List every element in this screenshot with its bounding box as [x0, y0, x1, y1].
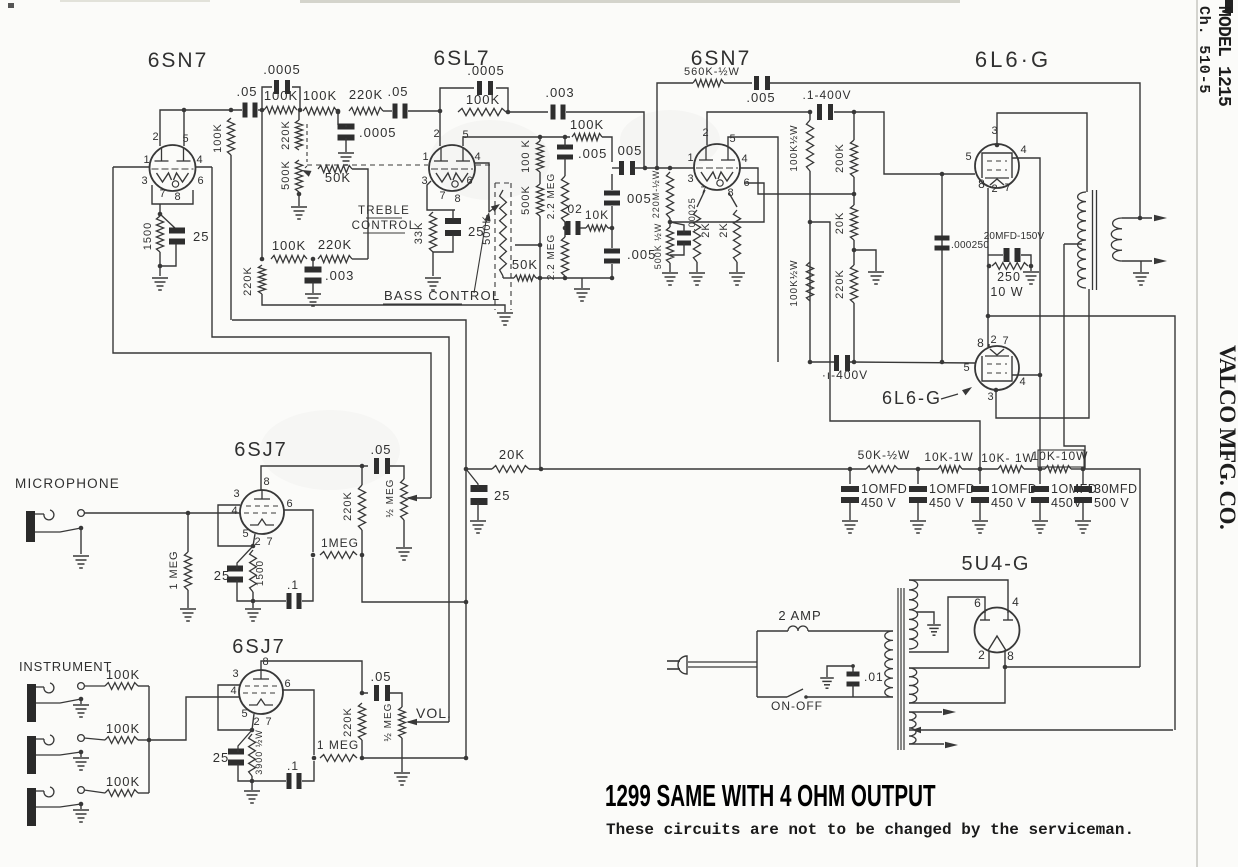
capacitor 25 instr: [228, 749, 244, 766]
ground 6SL7 cathode: [425, 278, 441, 290]
pin labels V5: [963, 334, 1026, 403]
node x854 top: [852, 110, 857, 115]
svg-text:25: 25: [213, 750, 229, 765]
svg-text:220K: 220K: [242, 266, 254, 296]
ground .01: [820, 678, 834, 688]
label MODEL 1215: [1213, 6, 1233, 106]
wire mic gnd stub: [80, 528, 82, 554]
svg-text:220K: 220K: [834, 269, 846, 299]
ground tone rail: [574, 289, 590, 301]
ground instr cathode: [244, 791, 260, 803]
label 220K mic: [342, 491, 354, 521]
node mic 1meg right: [360, 553, 365, 558]
svg-text:4: 4: [1020, 144, 1027, 156]
label 100K input 1: [106, 667, 140, 682]
node rail-100K plate: [229, 108, 234, 113]
tube V8 5U4: [975, 608, 1020, 653]
svg-text:4: 4: [1012, 595, 1020, 609]
wire 250 gnd: [1029, 264, 1034, 271]
svg-text:250: 250: [997, 270, 1021, 284]
wire V7 plate up: [261, 661, 368, 693]
wire driver grid: [656, 167, 695, 169]
annotation arrow lower 6L6: [941, 387, 972, 399]
capacitor .005 shunt a: [557, 145, 573, 160]
wire V6 plate up: [261, 466, 368, 490]
resistor 10K tone: [586, 225, 608, 231]
label 50K bottom: [512, 257, 538, 272]
wire instr jack 1 sleeve: [36, 699, 81, 703]
wire speaker bottom: [1122, 260, 1152, 262]
wire filter 4 gnd: [1039, 503, 1041, 520]
wire instr jack 2 sleeve: [36, 752, 81, 755]
capacitor .005 interstage: [619, 161, 635, 175]
ground mic cathode: [245, 609, 261, 621]
node screens join: [1038, 373, 1043, 378]
label 2.2MEG b: [546, 234, 557, 280]
wire filter cap 3 stub: [979, 469, 981, 484]
label .000250: [951, 240, 989, 251]
wire .1 instr leads: [252, 761, 314, 781]
svg-text:100K: 100K: [106, 774, 140, 789]
resistor 100K bass: [271, 255, 307, 262]
label Ch. 510-5: [1195, 6, 1212, 94]
svg-text:3900 ½W: 3900 ½W: [254, 729, 264, 775]
wire 5V bottom: [909, 650, 1005, 703]
capacitor .00025: [677, 231, 691, 246]
resistor 2.2MEG b: [561, 237, 568, 276]
label .0005 bridge 2: [467, 63, 505, 78]
svg-text:.05: .05: [370, 669, 391, 684]
annotation line to bass pot: [474, 212, 491, 293]
label 1MEG instr load: [317, 738, 359, 752]
svg-text:25: 25: [468, 224, 484, 239]
svg-text:.003: .003: [325, 268, 354, 283]
svg-text:1299 SAME WITH 4 OHM OUTPUT: 1299 SAME WITH 4 OHM OUTPUT: [605, 778, 936, 813]
svg-text:ON-OFF: ON-OFF: [771, 699, 823, 713]
svg-text:5: 5: [965, 151, 972, 163]
resistor 20K splitter: [850, 205, 857, 240]
wire 25 mic link: [237, 546, 253, 569]
wire .02 leads: [565, 227, 586, 229]
wire driver cath 2: [729, 193, 737, 207]
wire cathode cap top: [160, 214, 176, 229]
capacitor .003 bass: [305, 267, 322, 284]
svg-text:MODEL 1215: MODEL 1215: [1213, 6, 1233, 106]
label 100K bass: [272, 238, 306, 253]
wire tone bottom rail: [503, 277, 612, 279]
label 220K splitter: [834, 269, 846, 299]
text 1299 SAME WITH 4 OHM OUTPUT: [605, 778, 936, 813]
wire chain to Bplus row: [539, 278, 541, 469]
svg-text:.01: .01: [864, 670, 884, 684]
label 50K treble: [325, 170, 351, 185]
wire .05 instr to pot: [390, 693, 402, 707]
wire mic pot gnd: [403, 520, 405, 547]
wire cap stub: [345, 125, 347, 127]
label 250: [997, 270, 1021, 284]
capacitor .0005 bridge 1: [274, 80, 290, 94]
wire feedback long: [770, 83, 1140, 218]
wire .003 to corner: [566, 112, 644, 168]
label 25 mic: [214, 568, 230, 583]
label 33K: [413, 222, 425, 245]
wire .01 top: [827, 666, 853, 677]
node mix 2: [464, 756, 469, 761]
label 10K tone: [585, 208, 609, 222]
wire pot to ground: [298, 192, 300, 206]
svg-text:.0005: .0005: [263, 62, 301, 77]
wire cord split: [756, 631, 758, 697]
svg-text:10K- 1W: 10K- 1W: [981, 451, 1035, 465]
svg-text:1OMFD: 1OMFD: [929, 482, 975, 496]
node rail-pin5: [182, 108, 187, 113]
label .00025: [687, 197, 697, 231]
power transformer core: [898, 588, 904, 750]
label CONTROL: [352, 220, 417, 233]
svg-text:.1: .1: [287, 759, 299, 773]
wire 25 stubs: [433, 210, 453, 252]
wire V5 screen: [1012, 374, 1040, 376]
wire driver pin5 over: [728, 137, 778, 362]
node rail 6SL7: [438, 109, 443, 114]
wire to ground V1: [159, 266, 161, 276]
wire V1 pin4 right: [195, 166, 212, 168]
corner mark top-right: [1225, 0, 1233, 13]
svg-text:500K: 500K: [280, 160, 292, 190]
svg-text:6L6·G: 6L6·G: [975, 47, 1051, 72]
svg-text:5U4-G: 5U4-G: [962, 553, 1031, 575]
ground treble pot: [291, 207, 307, 219]
output transformer core: [1093, 190, 1097, 290]
wire driver pin4 over: [740, 168, 852, 194]
ground 2K a: [689, 273, 705, 285]
label .01: [864, 670, 884, 684]
label 25 V1: [193, 229, 209, 244]
label 2.2MEG a: [546, 173, 557, 219]
capacitor .05 coupling 2: [393, 104, 408, 119]
wire V7 pin6: [283, 690, 314, 755]
scan smudge b: [620, 110, 720, 170]
pin labels V8: [974, 595, 1020, 663]
node instr 1meg right: [360, 756, 365, 761]
resistor 1MEG mic grid: [184, 552, 191, 590]
svg-text:560K-½W: 560K-½W: [684, 66, 740, 78]
wire node A2 down: [298, 111, 300, 120]
label 25 6SL7: [468, 224, 484, 239]
tube V3 6SN7: [694, 144, 740, 190]
resistor 1MEG mic load: [320, 552, 357, 559]
node instr plate: [360, 691, 365, 696]
label INSTRUMENT: [19, 659, 112, 674]
svg-text:005: 005: [627, 191, 652, 206]
node 200K bottom: [852, 192, 857, 197]
resistor 200K: [850, 112, 857, 177]
node filter 3: [978, 467, 983, 472]
speaker arrow bottom: [1154, 258, 1167, 264]
switch lever: [787, 689, 803, 697]
wire .000250 link: [941, 174, 943, 362]
node 220M join: [668, 166, 673, 171]
svg-text:VOL.: VOL.: [416, 705, 452, 721]
resistor 50K halfW: [866, 466, 898, 473]
wire A3 down: [337, 111, 339, 125]
svg-text:1MEG: 1MEG: [321, 536, 359, 550]
wire 005a stub: [564, 137, 566, 147]
svg-text:100K: 100K: [303, 88, 337, 103]
capacitor filter 5: [1074, 486, 1092, 503]
resistor 100K chain: [536, 141, 543, 172]
label 6SJ7 instr: [232, 636, 286, 658]
wire fuse line: [757, 630, 788, 632]
label 10K1W b: [981, 451, 1035, 465]
svg-text:5: 5: [241, 708, 248, 720]
wire hv ct: [916, 612, 934, 624]
wire driver cath 1: [697, 190, 705, 207]
svg-text:220K: 220K: [349, 87, 383, 102]
svg-text:3: 3: [232, 668, 239, 680]
wire speaker top: [1122, 217, 1152, 219]
svg-text:4: 4: [230, 685, 237, 697]
ac cord: [688, 662, 757, 667]
svg-text:20K: 20K: [834, 212, 846, 235]
wire V5 plate: [994, 289, 1089, 418]
svg-text:3: 3: [987, 391, 994, 403]
label 200K: [834, 143, 846, 173]
wire filter cap 4 stub: [1039, 469, 1041, 484]
wire mic out link: [362, 555, 466, 602]
svg-text:500 V: 500 V: [1094, 496, 1129, 510]
capacitor .1-400V b: [834, 355, 850, 371]
label VOL: [416, 705, 452, 721]
label .05 instr: [370, 669, 391, 684]
label 6SN7 driver: [691, 47, 752, 70]
wire V1 pin5 up: [183, 110, 185, 146]
label .05 first: [236, 84, 257, 99]
resistor 50K treble: [318, 165, 352, 172]
resistor 500K chain: [536, 184, 543, 216]
label 6SL7: [433, 47, 490, 70]
label 6SJ7 mic: [234, 439, 288, 461]
label 220K instr: [342, 707, 354, 737]
label .005 feedback: [746, 90, 775, 105]
svg-text:1OMFD: 1OMFD: [991, 482, 1037, 496]
wire instr jack 3 out: [84, 790, 105, 793]
svg-text:100K½W: 100K½W: [789, 259, 800, 306]
wire 005a down: [564, 158, 566, 176]
wire V4 screen: [1012, 158, 1040, 374]
wire .1 mic leads: [253, 558, 313, 601]
ground hv ct: [927, 625, 941, 635]
pin labels V7: [230, 656, 291, 728]
wire grid rail: [810, 362, 975, 363]
filament 6.3V winding: [909, 712, 916, 744]
wire 50K right: [352, 169, 368, 259]
label VALCO MFG. CO.: [1215, 345, 1238, 529]
resistor 33K: [429, 212, 436, 252]
node mic 1meg left: [311, 553, 316, 558]
resistor 100KhalfW a: [806, 112, 813, 171]
node bass left: [260, 257, 265, 262]
node cath bottom: [158, 264, 163, 269]
svg-text:7: 7: [159, 188, 166, 200]
svg-text:2K: 2K: [718, 222, 730, 237]
capacitor .05 coupling 1: [243, 103, 258, 118]
node feedback tap: [1138, 216, 1143, 221]
wire 100K 3 to bus: [138, 792, 149, 794]
wire 500KhW gnd: [669, 263, 671, 272]
wire instr mix bus: [148, 686, 150, 793]
wire 005 interstage leads: [612, 167, 656, 169]
svg-text:.0005: .0005: [359, 125, 397, 140]
instr jack 2 body: [27, 736, 36, 774]
instr jack 1 circle: [78, 683, 85, 690]
ground speaker: [1133, 273, 1149, 285]
wire V7 cathode: [252, 714, 254, 730]
wire instr pot gnd: [401, 738, 403, 772]
node V7 cath: [250, 728, 255, 733]
svg-text:100K: 100K: [264, 88, 298, 103]
svg-text:Ch. 510-5: Ch. 510-5: [1195, 6, 1212, 94]
label 6SN7 first stage: [148, 49, 209, 72]
label 2 AMP: [778, 608, 821, 623]
svg-text:2.2 MEG: 2.2 MEG: [546, 173, 557, 219]
svg-text:3: 3: [233, 488, 240, 500]
mic jack tip contact: [35, 510, 54, 520]
node switch: [804, 695, 808, 699]
label .1 instr: [287, 759, 299, 773]
wire 100K 2 to bus: [138, 739, 149, 741]
svg-text:.005: .005: [746, 90, 775, 105]
wire 10K right: [608, 227, 612, 229]
capacitor .0005 bridge 2: [477, 81, 493, 95]
svg-text:6L6-G: 6L6-G: [882, 388, 942, 408]
svg-text:4: 4: [196, 154, 203, 166]
svg-text:50K-½W: 50K-½W: [858, 448, 911, 462]
svg-text:25: 25: [494, 488, 510, 503]
node A3: [336, 109, 341, 115]
svg-text:30MFD: 30MFD: [1094, 482, 1137, 496]
resistor 1500 V1 cathode: [156, 216, 163, 252]
wire instr jack 3 gnd: [80, 804, 82, 809]
label .005 a: [578, 146, 607, 161]
pin labels V4: [965, 125, 1027, 195]
node treble pot bottom: [297, 192, 302, 197]
wire cathode to CT: [988, 316, 1175, 730]
wire 220K shunt to gnd row: [262, 294, 505, 312]
resistor 2K a: [693, 210, 700, 262]
pot 500K treble: [295, 160, 302, 192]
svg-text:1 MEG: 1 MEG: [317, 738, 359, 752]
instr jack 2 circle: [78, 735, 85, 742]
svg-text:25: 25: [193, 229, 209, 244]
node bias join: [668, 220, 673, 225]
wire chain tap left: [515, 244, 540, 246]
wire filter 5 gnd: [1082, 503, 1084, 520]
wire V4 plate: [995, 113, 1087, 192]
title block border line: [1196, 0, 1198, 867]
capacitor 25 6SL7: [445, 218, 461, 236]
svg-text:.0005: .0005: [467, 63, 505, 78]
label 2K b: [718, 222, 730, 237]
tube V1 6SN7: [150, 145, 196, 191]
node mic sleeve: [79, 526, 84, 531]
svg-text:7: 7: [266, 536, 273, 548]
svg-text:8: 8: [978, 177, 986, 191]
label halfMEG mic: [385, 479, 396, 518]
svg-text:450 V: 450 V: [991, 496, 1026, 510]
node mix 1: [464, 600, 469, 605]
label .05 mic: [370, 442, 391, 457]
wire mic jack sleeve: [35, 528, 81, 532]
hv secondary: [909, 580, 918, 649]
resistor 220M grid: [666, 172, 673, 218]
node cathode branch: [986, 314, 991, 319]
svg-text:6: 6: [466, 175, 473, 187]
svg-text:220K: 220K: [342, 707, 354, 737]
node grid rail x810: [808, 360, 813, 365]
wire B+ route stage1: [232, 320, 466, 469]
wire instr jack 2 out: [84, 738, 105, 740]
wire V2 pin2 up: [439, 111, 441, 146]
label .1-400V a: [802, 88, 851, 102]
wire V6 cathode: [253, 534, 255, 546]
wire 100K 1 to bus: [138, 685, 149, 687]
label 220K bass: [318, 237, 352, 252]
wire 20K gnd arm: [854, 240, 876, 271]
label 2K a: [700, 222, 712, 237]
svg-text:500K: 500K: [520, 185, 532, 215]
wire V1 pin1 left: [113, 166, 150, 168]
wire cathode bottom join: [160, 244, 176, 266]
wire 100KhW mid: [809, 171, 811, 362]
label 100K mid: [570, 117, 604, 132]
resistor 220K bass: [318, 255, 352, 262]
label 10W: [990, 285, 1023, 299]
resistor 220K treble pot: [295, 120, 302, 150]
treble wiper arrow: [302, 166, 312, 177]
resistor 10K 1W a: [938, 466, 962, 473]
svg-text:2: 2: [702, 127, 709, 139]
svg-text:2: 2: [152, 131, 159, 143]
pin labels V2: [421, 128, 481, 205]
svg-text:½ MEG: ½ MEG: [383, 703, 394, 742]
svg-text:450 V: 450 V: [861, 496, 896, 510]
bass wiper arrow: [489, 204, 500, 212]
label ON-OFF: [771, 699, 823, 713]
node filter 2: [916, 467, 921, 472]
svg-text:1: 1: [143, 154, 150, 166]
ground filter 2: [910, 521, 926, 533]
resistor 220K mic: [358, 485, 365, 530]
node .02 branch: [563, 226, 568, 231]
wire x612 chain: [611, 174, 613, 278]
svg-text:BASS CONTROL: BASS CONTROL: [384, 288, 500, 303]
scan mark top-left: [8, 3, 14, 8]
label .003 coupling: [545, 85, 574, 100]
wire 560K to cap: [724, 82, 752, 84]
svg-text:1500: 1500: [255, 560, 266, 586]
svg-text:005: 005: [618, 143, 643, 158]
svg-text:CONTROL: CONTROL: [352, 220, 417, 232]
label .02: [563, 202, 583, 216]
node mic plate 220K: [360, 464, 365, 469]
capacitor .005 shunt c: [604, 249, 620, 264]
node tone rail a: [563, 276, 568, 281]
svg-text:10 W: 10 W: [990, 285, 1023, 299]
label 100K chain: [520, 139, 532, 173]
capacitor .000250: [935, 236, 950, 251]
label BASS CONTROL: [383, 288, 500, 304]
